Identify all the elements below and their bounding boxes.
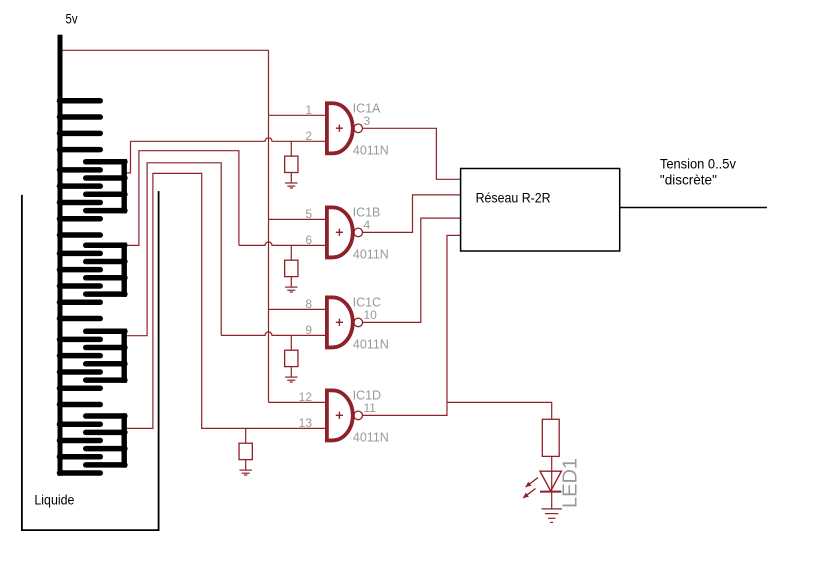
svg-text:5v: 5v <box>66 10 78 26</box>
svg-text:Réseau R-2R: Réseau R-2R <box>476 189 551 205</box>
svg-text:13: 13 <box>299 416 313 430</box>
svg-text:9: 9 <box>305 323 312 337</box>
svg-text:11: 11 <box>364 401 377 415</box>
svg-text:4011N: 4011N <box>353 337 389 351</box>
svg-text:4011N: 4011N <box>353 143 389 157</box>
svg-text:10: 10 <box>364 308 378 322</box>
svg-text:"discrète": "discrète" <box>660 172 717 188</box>
svg-text:8: 8 <box>305 297 312 311</box>
svg-text:12: 12 <box>299 390 313 404</box>
svg-text:6: 6 <box>305 233 312 247</box>
svg-text:4011N: 4011N <box>353 430 389 444</box>
svg-text:Tension 0..5v: Tension 0..5v <box>660 155 736 171</box>
svg-text:3: 3 <box>364 114 371 128</box>
svg-text:LED1: LED1 <box>560 458 582 508</box>
svg-text:2: 2 <box>305 129 312 143</box>
svg-text:Liquide: Liquide <box>34 492 74 508</box>
svg-text:4011N: 4011N <box>353 247 389 261</box>
svg-text:4: 4 <box>364 218 371 232</box>
svg-text:5: 5 <box>305 207 312 221</box>
svg-text:1: 1 <box>305 103 312 117</box>
